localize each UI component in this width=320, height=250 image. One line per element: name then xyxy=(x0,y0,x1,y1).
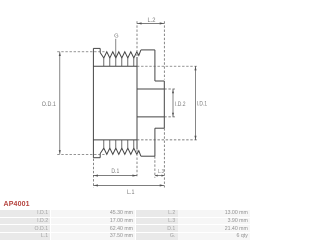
svg-text:I.D.1: I.D.1 xyxy=(197,102,208,108)
svg-text:L.3: L.3 xyxy=(158,169,164,175)
svg-text:D.1: D.1 xyxy=(111,169,119,175)
svg-text:O.D.1: O.D.1 xyxy=(42,102,57,108)
svg-text:I.D.2: I.D.2 xyxy=(175,102,186,108)
svg-text:L.2: L.2 xyxy=(148,18,157,24)
svg-text:G: G xyxy=(114,33,119,39)
svg-text:L.1: L.1 xyxy=(127,190,135,196)
